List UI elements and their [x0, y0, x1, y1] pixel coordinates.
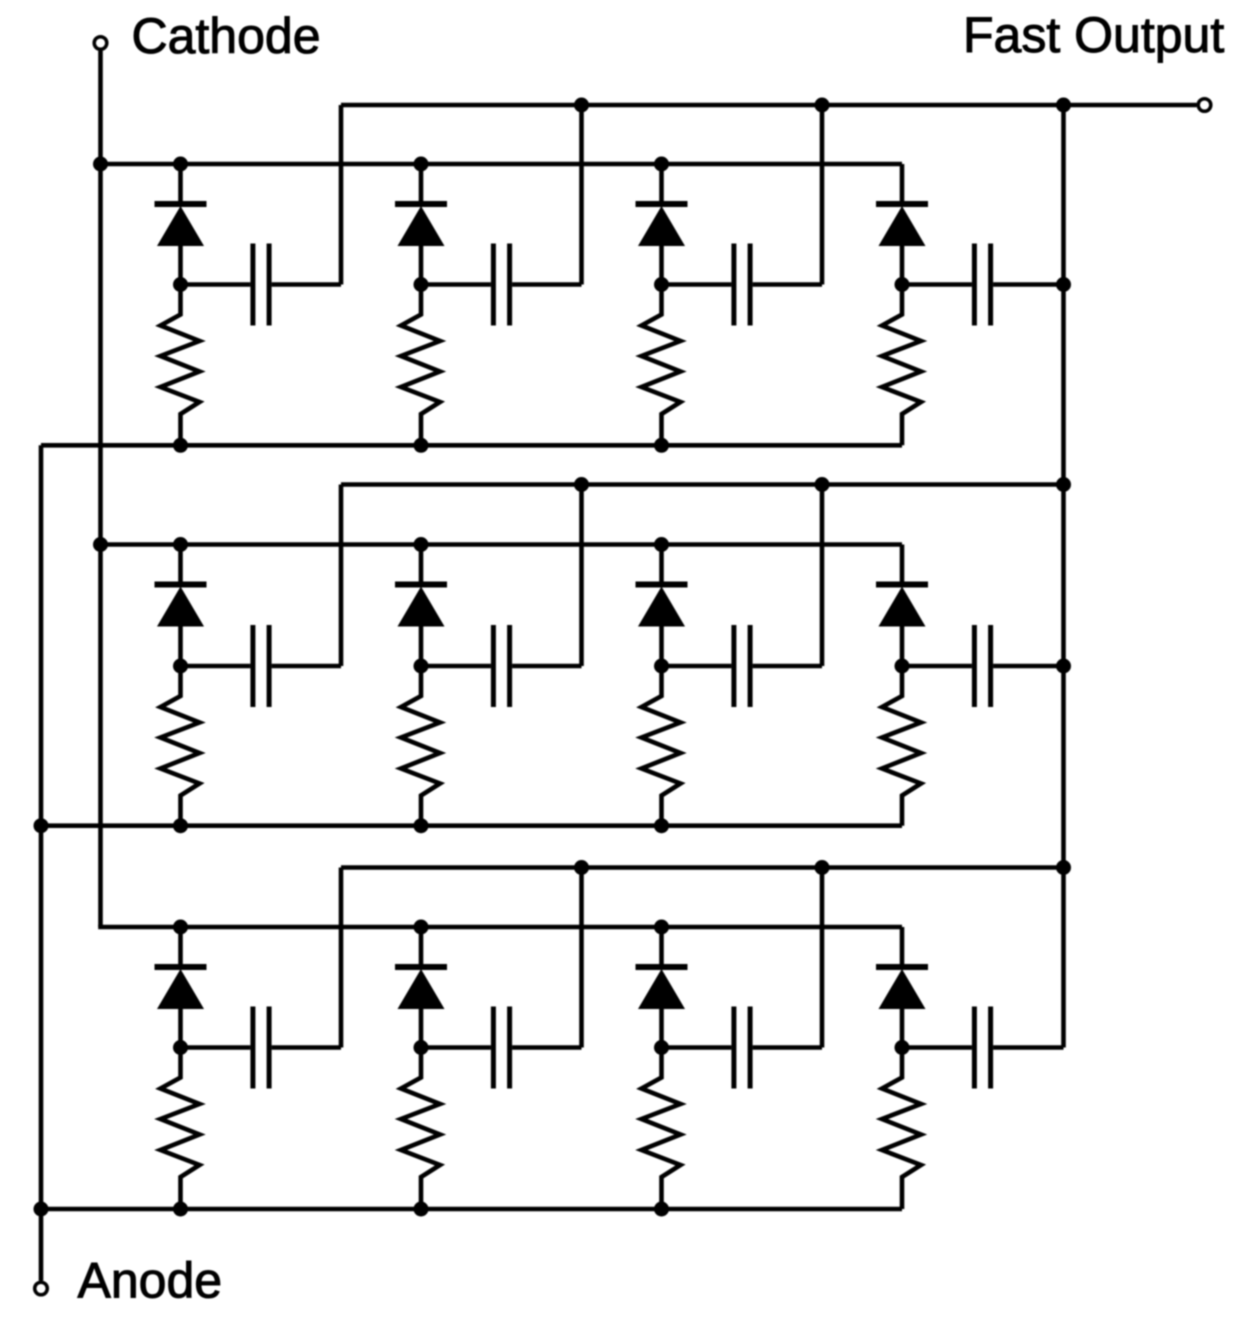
wire fast riser cell 31 [339, 868, 344, 1048]
resistor R31 [161, 1048, 200, 1210]
junction cathode rail / cathode bus row 2 [93, 537, 108, 552]
capacitor C12 [421, 244, 582, 326]
resistor R14 [882, 285, 921, 446]
junction resistor R23 / anode bus [654, 818, 669, 833]
wire cathode rail [98, 51, 103, 927]
wire anode bus row 1 [41, 443, 902, 448]
junction resistor R31 / anode bus [173, 1202, 188, 1217]
wire fast riser cell 22 [579, 485, 584, 667]
wire fast riser cell 33 [820, 868, 825, 1048]
resistor R23 [642, 666, 681, 826]
junction node cell 33 [654, 1040, 669, 1055]
wire fast bus row 2 [341, 482, 1064, 487]
junction resistor R32 / anode bus [414, 1202, 429, 1217]
capacitor C33 [662, 1007, 823, 1089]
junction node cell 22 [414, 659, 429, 674]
diode D24 [876, 545, 928, 667]
junction fast rail / top bus [1056, 98, 1071, 113]
junction riser cell 12 / fast bus [574, 98, 589, 113]
wire fast riser cell 23 [820, 485, 825, 667]
junction fast bus row 3 / fast rail [1056, 860, 1071, 875]
junction node cell 34 [895, 1040, 910, 1055]
capacitor C22 [421, 625, 582, 707]
junction diode D12 cathode / bus [414, 157, 429, 172]
capacitor C21 [181, 625, 342, 707]
junction node cell 31 [173, 1040, 188, 1055]
resistor R11 [161, 285, 200, 446]
junction anode rail / anode bus row 2 [34, 818, 49, 833]
diode D34 [876, 927, 928, 1048]
junction resistor R12 / anode bus [414, 438, 429, 453]
junction riser cell 23 / fast bus [815, 477, 830, 492]
junction fast bus row 2 / fast rail [1056, 477, 1071, 492]
capacitor C24 [902, 625, 1064, 707]
junction capacitor C24 / fast rail [1056, 659, 1071, 674]
junction capacitor C14 / fast rail [1056, 277, 1071, 292]
resistor R21 [161, 666, 200, 826]
junction diode D31 cathode / bus [173, 920, 188, 935]
svg-text:Cathode: Cathode [132, 8, 321, 64]
junction node cell 32 [414, 1040, 429, 1055]
junction riser cell 22 / fast bus [574, 477, 589, 492]
capacitor C13 [662, 244, 823, 326]
resistor R34 [882, 1048, 921, 1210]
junction riser cell 33 / fast bus [815, 860, 830, 875]
wire fast riser cell 11 [339, 105, 344, 285]
junction node cell 23 [654, 659, 669, 674]
diode D31 [155, 927, 207, 1048]
junction resistor R22 / anode bus [414, 818, 429, 833]
wire fast riser cell 12 [579, 105, 584, 285]
diode D11 [155, 164, 207, 285]
junction diode D13 cathode / bus [654, 157, 669, 172]
diode D33 [636, 927, 688, 1048]
capacitor C31 [181, 1007, 342, 1089]
junction resistor R21 / anode bus [173, 818, 188, 833]
capacitor C11 [181, 244, 342, 326]
cathode terminal [94, 37, 107, 50]
capacitor C32 [421, 1007, 582, 1089]
junction diode D33 cathode / bus [654, 920, 669, 935]
wire cathode bus row 1 [101, 162, 903, 167]
diode D32 [395, 927, 447, 1048]
junction node cell 24 [895, 659, 910, 674]
junction diode D32 cathode / bus [414, 920, 429, 935]
diode D14 [876, 164, 928, 285]
diode D21 [155, 545, 207, 667]
junction diode D23 cathode / bus [654, 537, 669, 552]
wire fast riser cell 32 [579, 868, 584, 1048]
wire cathode bus row 2 [101, 542, 903, 547]
diode D23 [636, 545, 688, 667]
junction diode D22 cathode / bus [414, 537, 429, 552]
diode D13 [636, 164, 688, 285]
wire anode bus row 3 [39, 1207, 902, 1212]
wire fast riser cell 13 [820, 105, 825, 285]
wire fast riser cell 21 [339, 485, 344, 667]
anode terminal [35, 1282, 48, 1295]
capacitor C23 [662, 625, 823, 707]
resistor R13 [642, 285, 681, 446]
junction diode D11 cathode / bus [173, 157, 188, 172]
wire top fast-output bus [341, 103, 1197, 108]
junction resistor R33 / anode bus [654, 1202, 669, 1217]
junction node cell 21 [173, 659, 188, 674]
junction anode rail / anode bus row 3 [34, 1202, 49, 1217]
wire anode rail [39, 445, 44, 1280]
wire cathode bus row 3 [98, 925, 902, 930]
junction node cell 14 [895, 277, 910, 292]
wire fast-output rail [1061, 105, 1066, 1048]
junction riser cell 13 / fast bus [815, 98, 830, 113]
junction node cell 11 [173, 277, 188, 292]
svg-text:Fast Output: Fast Output [963, 7, 1224, 63]
junction node cell 12 [414, 277, 429, 292]
junction node cell 13 [654, 277, 669, 292]
svg-text:Anode: Anode [78, 1253, 223, 1309]
resistor R32 [401, 1048, 440, 1210]
capacitor C14 [902, 244, 1064, 326]
junction resistor R11 / anode bus [173, 438, 188, 453]
fast output terminal [1198, 99, 1211, 112]
capacitor C34 [902, 1007, 1064, 1089]
wire anode bus row 2 [39, 823, 902, 828]
junction riser cell 32 / fast bus [574, 860, 589, 875]
resistor R24 [882, 666, 921, 826]
diode D22 [395, 545, 447, 667]
junction cathode rail / cathode bus row 1 [93, 157, 108, 172]
resistor R12 [401, 285, 440, 446]
wire fast bus row 3 [341, 865, 1064, 870]
junction resistor R13 / anode bus [654, 438, 669, 453]
resistor R22 [401, 666, 440, 826]
diode D12 [395, 164, 447, 285]
junction diode D21 cathode / bus [173, 537, 188, 552]
resistor R33 [642, 1048, 681, 1210]
